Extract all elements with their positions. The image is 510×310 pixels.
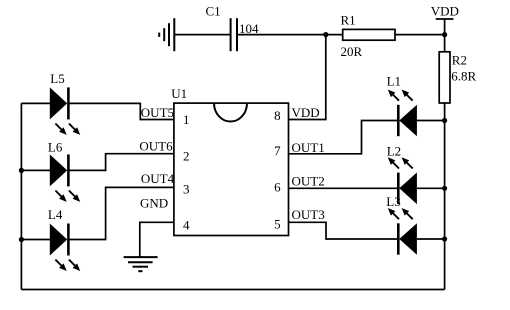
svg-text:6.8R: 6.8R [451,69,476,84]
node B junction dot [442,32,447,37]
L5 emission arrows [55,124,62,131]
L6 emission arrows [55,191,62,198]
power VDD symbol [436,19,454,35]
left bus wire [20,103,22,289]
wire L5 to pin1 [68,103,173,119]
wire pin5 to L3 [289,222,399,239]
LED L2 [387,144,417,205]
LED L6 [19,140,80,202]
wire bus to L6 [21,169,50,171]
svg-text:2: 2 [183,149,190,164]
svg-text:L6: L6 [48,140,63,155]
svg-text:OUT1: OUT1 [292,140,325,155]
svg-text:L2: L2 [387,144,401,159]
wire pin6 to L2 [289,187,399,189]
wire pin8 to node A [289,35,326,120]
wire pin4 to ground [140,222,174,257]
LED L1 [387,74,417,137]
wire ground to C1 [174,34,230,36]
ground (below pin 4) [124,257,158,271]
wire R2 to L1 node [444,103,446,121]
wire node A to R1 [326,34,343,36]
U1 notch [214,103,247,121]
wire L4 to pin3 [68,187,173,239]
svg-text:3: 3 [183,182,190,197]
wire L6 to pin2 [68,154,173,171]
svg-text:R2: R2 [452,53,467,68]
capacitor C1 [231,18,237,51]
svg-text:104: 104 [239,21,259,36]
wire L2 to bus [417,187,445,189]
svg-text:OUT6: OUT6 [139,139,173,154]
svg-text:L3: L3 [386,194,400,209]
wire R1 to node B [395,34,445,36]
svg-text:L1: L1 [387,74,401,89]
svg-text:U1: U1 [171,86,187,101]
node L2 junction dot [442,186,447,191]
wire L3 to bus [417,238,445,240]
node L3 junction dot [442,236,447,241]
svg-text:OUT5: OUT5 [141,105,174,120]
svg-text:20R: 20R [341,44,363,59]
svg-text:6: 6 [274,180,281,195]
bottom wire [21,289,444,291]
node L6 junction dot [19,168,24,173]
LED L5 [21,71,80,135]
svg-text:L4: L4 [48,207,63,222]
svg-text:OUT4: OUT4 [141,171,175,186]
L1 emission arrows [392,94,399,101]
L4 emission arrows [55,260,62,267]
svg-text:1: 1 [183,112,190,127]
svg-text:GND: GND [140,196,168,211]
wire bus to L5 [21,102,50,104]
op IC U1 body [174,103,289,235]
L2 emission arrows [392,161,399,168]
L3 emission arrows [392,212,399,219]
LED L4 [19,207,80,271]
wire bus to L4 [21,239,50,241]
svg-text:VDD: VDD [431,4,459,19]
svg-text:8: 8 [274,108,281,123]
svg-text:4: 4 [183,218,190,233]
resistor R2 [439,52,450,103]
wire C1 to node A [237,34,326,36]
svg-text:OUT2: OUT2 [292,174,325,189]
node A junction dot [323,32,328,37]
LED L3 [386,194,417,255]
svg-text:OUT3: OUT3 [292,207,325,222]
resistor R1 [343,29,395,40]
svg-text:R1: R1 [341,12,356,27]
node L4 junction dot [19,237,24,242]
svg-text:VDD: VDD [292,105,320,120]
svg-text:L5: L5 [50,71,64,86]
right bus wire [444,121,446,290]
svg-text:7: 7 [274,143,281,158]
wire node B to R2 [444,35,446,52]
svg-text:C1: C1 [206,4,221,19]
wire L1 to bus [417,120,445,122]
svg-text:5: 5 [274,216,281,231]
ground (top-left, rotated earth ground) [159,18,174,51]
node L1 junction dot [442,118,447,123]
wire pin7 to L1 [289,121,399,154]
